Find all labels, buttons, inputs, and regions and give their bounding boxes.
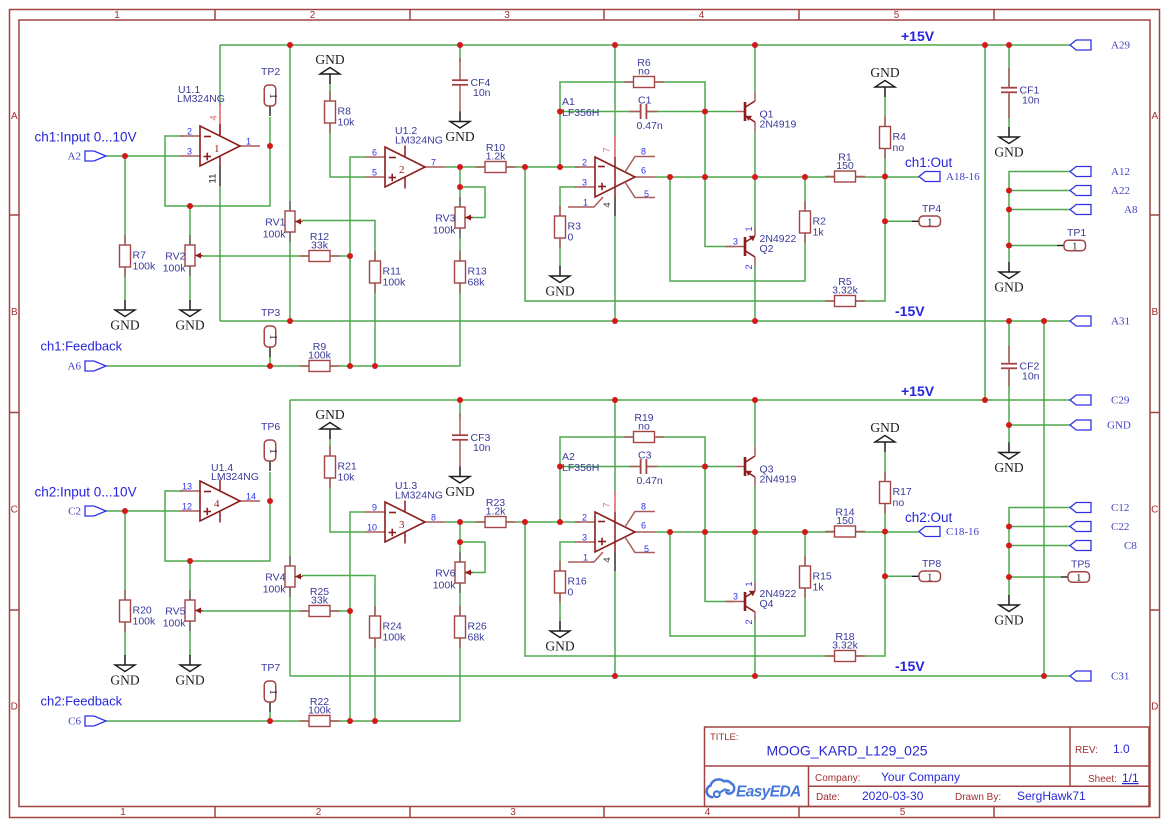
resistor R21 [325, 446, 357, 488]
svg-text:LM324NG: LM324NG [177, 93, 225, 105]
wire +15V link between channels [984, 45, 986, 400]
junction ch2 net (350,611) [347, 608, 353, 614]
svg-text:1: 1 [114, 10, 120, 21]
wire C3 left [560, 466, 640, 468]
svg-text:7: 7 [602, 502, 613, 507]
svg-text:0: 0 [568, 232, 574, 244]
svg-text:TP1: TP1 [1067, 227, 1086, 239]
svg-text:RV6: RV6 [435, 568, 455, 580]
wire RV4 wiper to R24 [302, 576, 375, 618]
junction ch2 net (805,532) [802, 529, 808, 535]
svg-text:RV3: RV3 [435, 213, 455, 225]
wire A2 V- [614, 571, 616, 676]
wire R20 to input [124, 511, 126, 656]
wire RV3 top [459, 167, 461, 208]
resistor R6 [624, 57, 664, 88]
junction ch1 net (615,45) [612, 42, 618, 48]
svg-text:68k: 68k [468, 632, 486, 644]
svg-text:6: 6 [641, 521, 646, 531]
svg-text:4: 4 [209, 115, 220, 120]
junction ch1 net (375,366) [372, 363, 378, 369]
junction ch2 net (460,542) [457, 539, 463, 545]
svg-text:A31: A31 [1111, 316, 1130, 328]
junction ch1 net (270,146) [267, 143, 273, 149]
junction rail net (1009,545.5) [1006, 543, 1012, 549]
svg-text:GND: GND [870, 420, 899, 435]
junction ch1 net (560,167) [557, 164, 563, 170]
junction ch1 net (560,111.5) [557, 109, 563, 115]
wire A2 output [655, 531, 919, 533]
svg-text:3: 3 [399, 519, 405, 531]
wire RV1 wiper to R11 [302, 221, 375, 263]
svg-text:SergHawk71: SergHawk71 [1017, 789, 1086, 803]
svg-text:12: 12 [182, 502, 192, 512]
wire R21 to U1.3 +in [330, 439, 365, 532]
junction ch1 net (525,167) [522, 164, 528, 170]
capacitor CF4 [452, 58, 491, 112]
svg-text:1: 1 [927, 217, 932, 228]
svg-text:6: 6 [372, 148, 377, 158]
svg-text:2: 2 [187, 127, 192, 137]
svg-text:Q4: Q4 [760, 598, 774, 610]
svg-text:ch1:Feedback: ch1:Feedback [41, 339, 123, 354]
svg-text:ch2:Out: ch2:Out [905, 510, 953, 525]
wire RV5 top [189, 561, 191, 601]
resistor R3 [555, 206, 582, 248]
net flag A31 [1070, 316, 1130, 328]
svg-text:13: 13 [182, 482, 192, 492]
wire A1 V+ [614, 45, 616, 137]
test point TP4 [912, 203, 941, 229]
resistor R11 [370, 251, 407, 293]
junction rail net (1009,526.5) [1006, 524, 1012, 530]
net flag A18-16 [919, 172, 940, 182]
svg-text:Date:: Date: [816, 792, 840, 803]
net flag C22 [1070, 521, 1129, 533]
wire A1 output [655, 176, 919, 178]
wire ch1 feedback feedback net [106, 282, 460, 366]
svg-text:LM324NG: LM324NG [395, 135, 443, 147]
svg-text:100k: 100k [433, 225, 457, 237]
junction rail net (1009,209.5) [1006, 207, 1012, 213]
net flag C8 [1070, 540, 1137, 552]
wire A2 V+ [614, 400, 616, 492]
wire R6 right to Q2 base [656, 82, 735, 247]
net flag C31 [1070, 671, 1129, 683]
junction ch1 net (290,45) [287, 42, 293, 48]
svg-text:3: 3 [510, 807, 516, 818]
wire RV2 top [189, 206, 191, 246]
wire A22 [1009, 190, 1070, 192]
svg-text:100k: 100k [383, 632, 407, 644]
junction ch1 net (615,321) [612, 318, 618, 324]
wire R24 bottom [374, 638, 376, 721]
svg-text:RV4: RV4 [265, 572, 285, 584]
svg-text:100k: 100k [308, 705, 332, 717]
svg-text:2020-03-30: 2020-03-30 [862, 789, 924, 803]
svg-text:Your Company: Your Company [881, 770, 960, 784]
svg-text:C12: C12 [1111, 502, 1129, 514]
wire RV2 to ground [189, 266, 191, 301]
wire U1.4 feedback loop [165, 491, 270, 561]
svg-text:C31: C31 [1111, 671, 1129, 683]
svg-text:C18-16: C18-16 [946, 526, 980, 538]
net flag A8 [1070, 204, 1138, 216]
wire RV6 top [459, 522, 461, 563]
junction ch2 net (560,466.5) [557, 464, 563, 470]
wire U1.1 V+ pin [219, 45, 221, 106]
junction ch2 net (560,522) [557, 519, 563, 525]
ground [545, 266, 574, 299]
svg-text:1k: 1k [813, 582, 825, 594]
junction ch2 net (755,532) [752, 529, 758, 535]
op-amp U1.4 unit 4 [180, 462, 260, 523]
wire +15V rail [290, 399, 1070, 401]
svg-text:TP8: TP8 [922, 558, 941, 570]
net flag C2 [68, 506, 106, 518]
ground [870, 420, 899, 452]
junction ch2 net (270,721) [267, 718, 273, 724]
ground [315, 407, 344, 439]
svg-text:100k: 100k [263, 584, 287, 596]
resistor R12 [300, 231, 340, 262]
svg-text:3: 3 [733, 592, 738, 602]
svg-text:no: no [638, 421, 650, 433]
wire C1 right to Q1 base [646, 111, 735, 113]
svg-text:+15V: +15V [901, 383, 935, 399]
wire TP5 tap [1009, 576, 1061, 578]
wire output to R2 bottom [670, 177, 805, 281]
net flag A2 [68, 151, 106, 163]
wire CF3 top [459, 400, 461, 417]
potentiometer RV6 [433, 552, 473, 593]
capacitor C1 [630, 95, 663, 133]
wire U1.2 out to A1 [445, 166, 580, 168]
resistor R24 [370, 606, 407, 648]
resistor R13 [455, 251, 487, 293]
svg-text:7: 7 [431, 158, 436, 168]
wire RV4 to +15V [289, 400, 291, 567]
svg-text:100k: 100k [163, 618, 187, 630]
svg-text:GND: GND [175, 673, 204, 688]
ground [870, 65, 899, 97]
capacitor C3 [630, 450, 663, 488]
svg-text:100k: 100k [163, 263, 187, 275]
resistor R7 [120, 235, 157, 277]
svg-text:GND: GND [994, 280, 1023, 295]
wire R7 to input [124, 156, 126, 301]
wire R5 to output [855, 177, 885, 302]
svg-text:8: 8 [431, 513, 436, 523]
svg-text:+15V: +15V [901, 28, 935, 44]
test point TP3 [261, 307, 280, 357]
svg-text:3: 3 [504, 10, 510, 21]
svg-text:A: A [1151, 111, 1158, 122]
svg-text:100k: 100k [383, 277, 407, 289]
capacitor CF3 [452, 413, 491, 467]
svg-text:100k: 100k [263, 229, 287, 241]
resistor R15 [800, 556, 832, 598]
junction ch1 net (270,366) [267, 363, 273, 369]
op-amp U1.1 unit 1 [177, 84, 260, 186]
ground [110, 655, 139, 688]
resistor R10 [476, 142, 516, 173]
svg-text:2: 2 [744, 619, 754, 624]
svg-text:TP2: TP2 [261, 66, 280, 78]
junction ch2 net (615,676) [612, 673, 618, 679]
svg-text:2N4919: 2N4919 [760, 474, 797, 486]
svg-text:A: A [11, 111, 18, 122]
svg-text:GND: GND [545, 284, 574, 299]
junction ch2 net (755,400) [752, 397, 758, 403]
wire CF2 bottom [1008, 370, 1010, 425]
wire RV4 to -15V [289, 587, 291, 676]
wire A12 group vertical [1009, 172, 1070, 263]
svg-text:3: 3 [733, 237, 738, 247]
junction ch1 net (190,206) [187, 203, 193, 209]
svg-text:4: 4 [699, 10, 705, 21]
test point TP7 [261, 662, 280, 712]
net flag C18-16 [919, 527, 940, 537]
junction rail net (1009,321) [1006, 318, 1012, 324]
wire R3 to ground [559, 237, 561, 266]
svg-text:C1: C1 [638, 95, 652, 107]
svg-text:1: 1 [1076, 573, 1081, 584]
svg-text:C: C [11, 505, 18, 516]
svg-text:1.2k: 1.2k [486, 151, 507, 163]
junction ch1 net (290,321) [287, 318, 293, 324]
junction ch1 net (755,45) [752, 42, 758, 48]
wire C3 right to Q3 base [646, 466, 735, 468]
wire U1.3 -in feedback [350, 512, 365, 721]
svg-text:4: 4 [602, 557, 613, 562]
wire R11 bottom [374, 283, 376, 366]
wire C1 left [560, 111, 640, 113]
svg-text:33k: 33k [311, 595, 329, 607]
svg-text:LF356H: LF356H [562, 462, 599, 474]
svg-text:TITLE:: TITLE: [710, 732, 739, 743]
junction ch1 net (755,321) [752, 318, 758, 324]
svg-text:C22: C22 [1111, 521, 1129, 533]
test point TP1 [1057, 227, 1086, 253]
wire R6 left [560, 82, 633, 167]
svg-text:1: 1 [583, 198, 588, 208]
svg-text:100k: 100k [133, 616, 157, 628]
svg-text:2: 2 [582, 158, 587, 168]
svg-text:RV5: RV5 [165, 606, 185, 618]
svg-text:RV1: RV1 [265, 217, 285, 229]
wire R16 to ground [559, 592, 561, 621]
svg-text:1: 1 [583, 553, 588, 563]
svg-text:D: D [11, 702, 18, 713]
ground [994, 127, 1023, 160]
svg-text:GND: GND [175, 318, 204, 333]
wire TP4 tap [885, 220, 912, 222]
wire Q2 bottom [754, 266, 756, 321]
svg-text:68k: 68k [468, 277, 486, 289]
wire RV6 to R26 [459, 583, 461, 617]
potentiometer RV4 [263, 556, 303, 597]
svg-text:6: 6 [641, 166, 646, 176]
ground [445, 112, 474, 145]
resistor R9 [300, 341, 340, 372]
junction ch2 net (615,400) [612, 397, 618, 403]
svg-text:1: 1 [267, 93, 278, 98]
svg-text:GND: GND [994, 460, 1023, 475]
svg-text:1: 1 [1072, 242, 1077, 253]
svg-text:A18-16: A18-16 [946, 171, 980, 183]
wire TP2 to output [269, 117, 271, 146]
svg-text:8: 8 [641, 502, 646, 512]
wire R10 net to R5 [525, 167, 835, 301]
svg-text:1.2k: 1.2k [486, 506, 507, 518]
resistor R17 [880, 472, 912, 514]
svg-text:-15V: -15V [895, 658, 925, 674]
svg-text:EasyEDA: EasyEDA [736, 784, 801, 801]
svg-text:C6: C6 [68, 716, 81, 728]
junction ch1 net (460,45) [457, 42, 463, 48]
wire C12 group vertical [1009, 508, 1070, 597]
svg-text:2: 2 [744, 264, 754, 269]
svg-text:1: 1 [267, 334, 278, 339]
svg-text:33k: 33k [311, 240, 329, 252]
svg-text:GND: GND [315, 407, 344, 422]
svg-text:ch1:Input 0...10V: ch1:Input 0...10V [35, 130, 137, 145]
svg-text:C: C [1151, 505, 1158, 516]
svg-text:1: 1 [744, 581, 754, 586]
resistor R16 [555, 561, 587, 603]
svg-text:150: 150 [836, 160, 854, 172]
svg-text:1: 1 [927, 572, 932, 583]
svg-text:GND: GND [994, 145, 1023, 160]
ground [994, 262, 1023, 295]
wire R8 to U1.2 +in [330, 84, 365, 177]
wire R4 bottom [884, 147, 886, 177]
svg-text:GND: GND [870, 65, 899, 80]
resistor R4 [880, 117, 907, 159]
op-amp A2 LF356H [562, 451, 655, 571]
wire Q3 collector [754, 400, 756, 447]
wire R23 net to R18 [525, 522, 835, 656]
ground [445, 467, 474, 500]
svg-text:1: 1 [246, 137, 251, 147]
ground [175, 300, 204, 333]
svg-text:11: 11 [208, 174, 219, 184]
transistor Q4 [725, 581, 796, 624]
wire GND drop [1008, 425, 1010, 443]
resistor R8 [325, 91, 356, 133]
wire U1.3 out to A2 [445, 521, 580, 523]
title block [705, 727, 1150, 807]
svg-text:2: 2 [399, 164, 405, 176]
svg-text:0: 0 [568, 587, 574, 599]
svg-text:Drawn By:: Drawn By: [955, 792, 1001, 803]
wire TP3 drop [269, 357, 271, 366]
svg-text:10n: 10n [1022, 95, 1040, 107]
junction ch1 net (755,177) [752, 174, 758, 180]
wire Q1 collector [754, 45, 756, 92]
wire A1 V- [614, 216, 616, 321]
junction ch1 net (460,167) [457, 164, 463, 170]
junction rail net (1009,245.5) [1006, 243, 1012, 249]
svg-text:Sheet:: Sheet: [1088, 774, 1117, 785]
junction rail net (985,45) [982, 42, 988, 48]
potentiometer RV1 [263, 201, 303, 242]
svg-text:TP3: TP3 [261, 307, 280, 319]
resistor R25 [300, 586, 340, 617]
transistor Q2 [725, 226, 796, 269]
potentiometer RV3 [433, 197, 473, 238]
wire CF4 top [459, 45, 461, 62]
svg-text:GND: GND [110, 673, 139, 688]
wire R4 top [884, 97, 886, 127]
svg-text:ch1:Out: ch1:Out [905, 155, 953, 170]
wire R19 right to Q4 base [656, 437, 735, 602]
svg-text:10k: 10k [338, 472, 356, 484]
wire A2 +in to R16 [560, 542, 576, 572]
junction rail net (985,400) [982, 397, 988, 403]
resistor R22 [300, 696, 340, 727]
svg-text:no: no [638, 66, 650, 78]
wire GND connector [1009, 424, 1070, 426]
wire Q4 bottom [754, 621, 756, 676]
wire TP1 tap [1009, 245, 1057, 247]
svg-text:GND: GND [110, 318, 139, 333]
ground [994, 443, 1023, 476]
junction rail net (1009,425) [1006, 422, 1012, 428]
test point TP6 [261, 421, 280, 471]
wire A8 [1009, 209, 1070, 211]
svg-text:4: 4 [705, 807, 711, 818]
wire U1.2 -in feedback [350, 157, 365, 366]
svg-text:100k: 100k [133, 261, 157, 273]
svg-text:A12: A12 [1111, 166, 1130, 178]
wire TP7 drop [269, 712, 271, 721]
junction rail net (1009,190.5) [1006, 188, 1012, 194]
svg-text:10: 10 [367, 523, 377, 533]
svg-text:1: 1 [744, 226, 754, 231]
svg-text:B: B [1151, 307, 1158, 318]
potentiometer RV5 [163, 590, 203, 631]
op-amp U1.3 unit 3 [365, 480, 445, 544]
svg-text:1k: 1k [813, 227, 825, 239]
title block labels [710, 732, 1117, 803]
svg-text:5: 5 [900, 807, 906, 818]
junction ch2 net (375,721) [372, 718, 378, 724]
resistor R18 [825, 631, 865, 662]
svg-text:LM324NG: LM324NG [395, 490, 443, 502]
svg-text:2N4919: 2N4919 [760, 119, 797, 131]
svg-text:5: 5 [644, 544, 649, 554]
wire RV1 to +15V [289, 45, 291, 212]
wire TP8 tap [885, 575, 912, 577]
wire Q3 emitter to Q4 [754, 486, 756, 582]
junction ch1 net (705,111.5) [702, 109, 708, 115]
wire R15 top [804, 532, 806, 567]
wire -15V rail [220, 320, 1070, 322]
ground [110, 300, 139, 333]
svg-text:1: 1 [267, 689, 278, 694]
svg-text:A2: A2 [68, 151, 81, 163]
svg-text:1: 1 [120, 807, 126, 818]
junction ch1 net (670,177) [667, 174, 673, 180]
wire C8 [1009, 545, 1070, 547]
svg-text:3.32k: 3.32k [832, 640, 858, 652]
svg-text:GND: GND [545, 639, 574, 654]
wire RV6 wiper loop [460, 542, 485, 573]
wire -15V link between channels [1043, 321, 1045, 676]
svg-text:Q2: Q2 [760, 243, 774, 255]
